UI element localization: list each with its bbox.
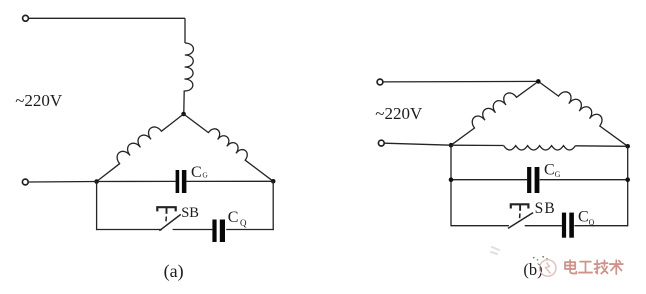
svg-text:C: C bbox=[544, 162, 555, 179]
svg-text:C: C bbox=[191, 164, 202, 181]
svg-text:G: G bbox=[555, 170, 561, 179]
svg-text:~220V: ~220V bbox=[15, 91, 63, 110]
svg-text:Q: Q bbox=[589, 218, 595, 227]
svg-text:C: C bbox=[578, 209, 589, 226]
svg-text:C: C bbox=[228, 209, 239, 226]
svg-text:SB: SB bbox=[181, 205, 199, 221]
svg-text:G: G bbox=[202, 171, 208, 180]
svg-text:SB: SB bbox=[535, 200, 556, 217]
svg-text:(a): (a) bbox=[164, 261, 184, 282]
svg-text:~220V: ~220V bbox=[375, 104, 423, 123]
svg-text:Q: Q bbox=[240, 218, 247, 228]
